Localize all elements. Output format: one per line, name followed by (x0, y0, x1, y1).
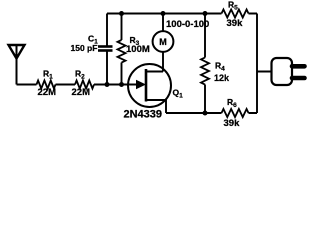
node: junction dot R4 top (203, 11, 208, 16)
node: junction dot R4 bottom (203, 111, 208, 116)
svg-text:12k: 12k (214, 73, 230, 83)
resistor R2 (72, 69, 95, 99)
wire: right rail (256, 14, 258, 114)
wire antenna to R1 (17, 84, 37, 86)
resistor R6 (222, 97, 249, 129)
meter M 100-0-100 (153, 14, 210, 72)
svg-text:M: M (159, 37, 167, 47)
svg-text:100-0-100: 100-0-100 (166, 19, 209, 30)
transistor Q1 2N4339 (124, 64, 184, 121)
node: junction dot C1/gate wire (105, 82, 110, 87)
svg-text:150 pF: 150 pF (71, 43, 98, 53)
node: junction dot meter top (161, 11, 166, 16)
svg-text:22M: 22M (38, 87, 57, 98)
svg-text:2N4339: 2N4339 (124, 109, 163, 121)
capacitor C1 (71, 14, 113, 85)
node: junction dot R3/gate wire (119, 82, 124, 87)
svg-text:39k: 39k (224, 118, 241, 129)
svg-text:100M: 100M (126, 44, 150, 55)
resistor R4 (201, 14, 230, 114)
wire: top rail (107, 13, 257, 15)
plug P1 (257, 58, 305, 85)
wire R1 to R2 (56, 84, 76, 86)
resistor R5 (222, 0, 249, 29)
svg-text:39k: 39k (227, 18, 244, 29)
wire R2 to gate of Q1 (94, 84, 138, 86)
wire: bottom rail (166, 112, 257, 114)
resistor R1 (37, 69, 57, 99)
node: junction dot R3 top (119, 11, 124, 16)
antenna (9, 45, 25, 85)
resistor R3 (118, 14, 150, 85)
svg-text:22M: 22M (72, 87, 91, 98)
